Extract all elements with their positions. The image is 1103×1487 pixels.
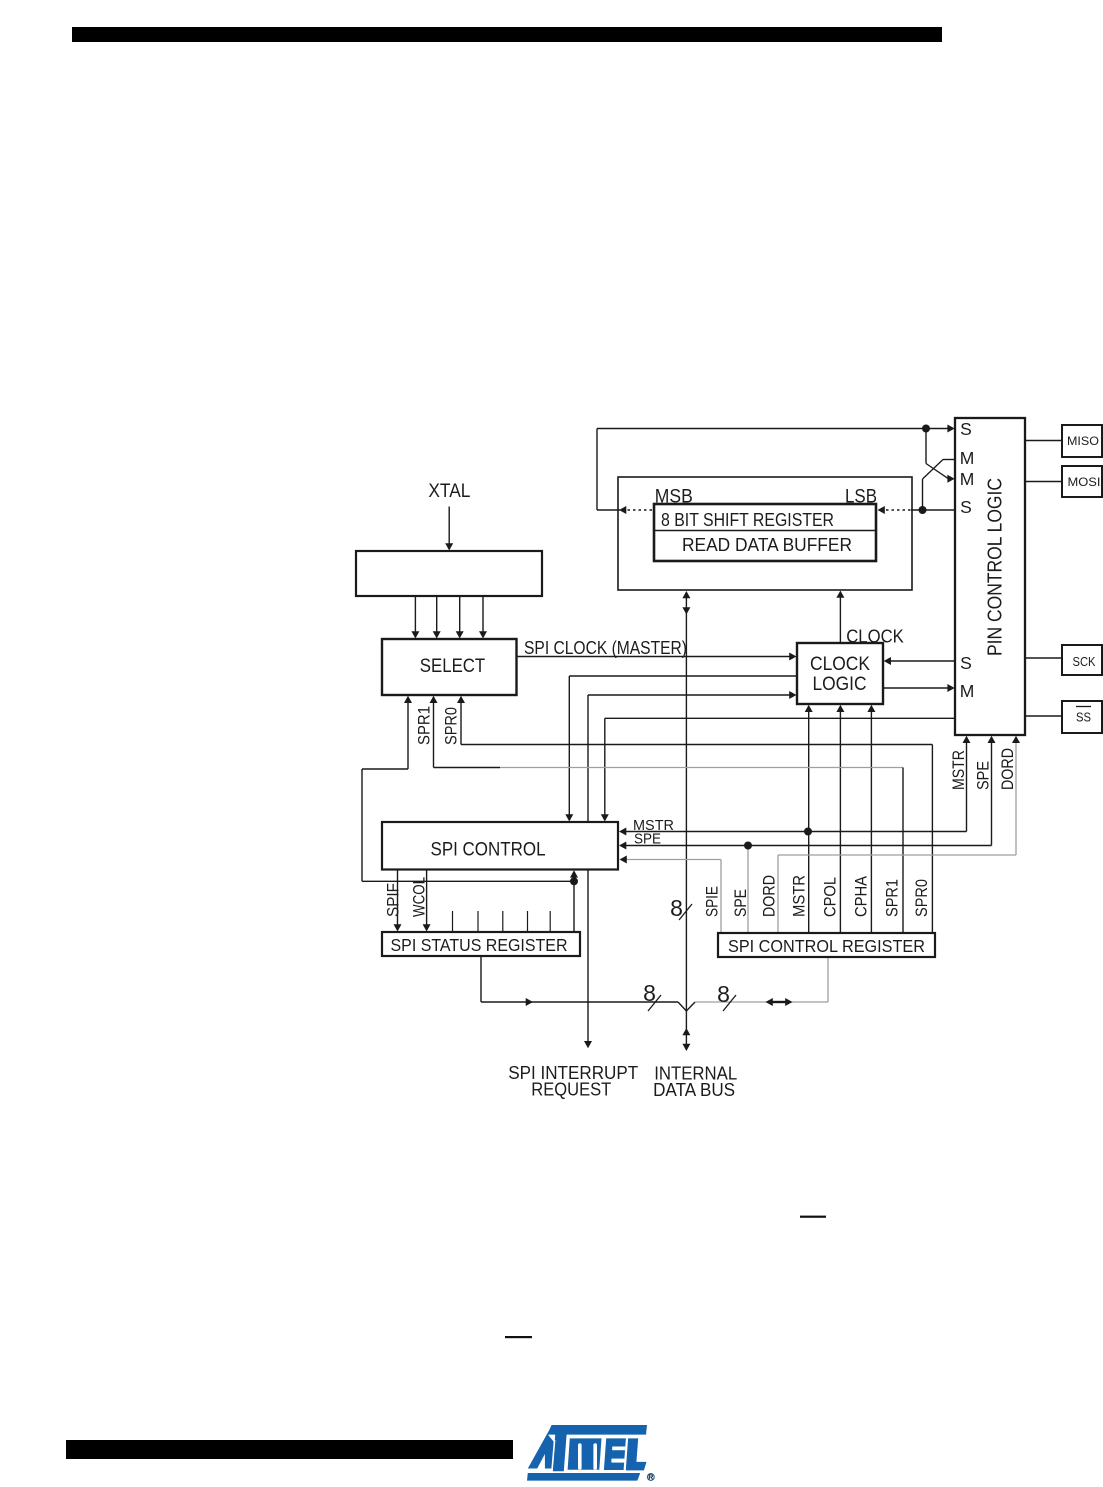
wire pin control to MOSI — [1025, 481, 1062, 483]
wire MSB dashed arrow — [597, 509, 620, 511]
divider box — [356, 551, 542, 596]
wire SPIF to status register — [397, 870, 399, 927]
slash bus right — [723, 995, 736, 1011]
svg-text:M: M — [960, 681, 975, 701]
svg-text:MOSI: MOSI — [1068, 475, 1101, 489]
Atmel logo — [548, 1425, 648, 1435]
wire crossover S to M upper — [925, 429, 927, 464]
svg-text:M: M — [960, 469, 975, 489]
MOSI box — [1062, 466, 1102, 497]
wire divider to select 3 — [459, 596, 461, 633]
svg-text:DORD: DORD — [761, 875, 779, 917]
wire clock logic to M pin — [883, 687, 949, 689]
svg-text:PIN CONTROL LOGIC: PIN CONTROL LOGIC — [983, 478, 1006, 656]
svg-text:R: R — [648, 1475, 653, 1482]
SPI STATUS REGISTER box — [382, 932, 580, 956]
wire status register to data bus — [480, 956, 482, 1002]
svg-text:S: S — [960, 653, 972, 673]
svg-text:CPOL: CPOL — [822, 877, 840, 917]
svg-text:SPI CONTROL: SPI CONTROL — [431, 839, 546, 861]
svg-text:SELECT: SELECT — [420, 656, 486, 677]
wire clock logic input 3 from spi control — [588, 694, 791, 696]
svg-text:MSB: MSB — [655, 487, 693, 508]
svg-text:DATA BUS: DATA BUS — [653, 1079, 735, 1100]
register divider line — [654, 530, 876, 532]
wire divider to select 4 — [482, 596, 484, 633]
svg-text:DORD: DORD — [999, 748, 1017, 790]
wire pin control to SCK — [1025, 657, 1062, 659]
svg-text:READ DATA BUFFER: READ DATA BUFFER — [682, 534, 852, 555]
wire internal data bus vertical from shift register — [682, 591, 690, 598]
wire SPE to spi control and pin control — [619, 842, 626, 850]
wire CLOCK clock logic to shift register — [839, 597, 841, 644]
wire S pin to clock logic — [890, 660, 955, 662]
junction lower S — [919, 506, 927, 514]
SS overline fragment 2 — [505, 1336, 532, 1338]
svg-text:MSTR: MSTR — [950, 750, 968, 790]
wire SPI CLOCK (MASTER) select to clock logic — [517, 656, 791, 658]
wire CPOL to clock logic bottom — [839, 711, 841, 933]
wire SPI interrupt request — [587, 870, 589, 1043]
wire SPE bit vertical — [747, 846, 749, 934]
junction top S — [922, 425, 930, 433]
svg-text:SPR0: SPR0 — [443, 707, 461, 745]
CLOCK LOGIC box — [797, 643, 883, 704]
wire pin control to SS — [1025, 715, 1062, 717]
svg-text:SPE: SPE — [975, 761, 993, 790]
wire crossover lower to M — [922, 479, 924, 510]
svg-text:SPR0: SPR0 — [913, 879, 931, 917]
svg-text:CLOCK: CLOCK — [810, 654, 870, 675]
svg-text:SPIF: SPIF — [385, 883, 403, 917]
SPI CONTROL box — [382, 822, 618, 870]
data bus notch — [678, 1002, 695, 1011]
junction MSTR bit — [804, 828, 812, 836]
wire LSB dashed arrow — [878, 506, 885, 514]
wire XTAL to divider — [448, 507, 450, 545]
svg-text:8 BIT SHIFT REGISTER: 8 BIT SHIFT REGISTER — [661, 509, 834, 530]
wire MSTR to spi control and pin control — [619, 828, 626, 836]
svg-text:8: 8 — [643, 980, 656, 1006]
svg-text:SCK: SCK — [1073, 655, 1097, 669]
PIN CONTROL LOGIC box — [955, 418, 1025, 735]
SELECT box — [382, 639, 517, 695]
wire divider to select 1 — [414, 596, 416, 633]
svg-text:MSTR: MSTR — [791, 875, 809, 917]
status register bit stubs — [452, 911, 454, 932]
wire SPI2X status bit to select — [404, 696, 412, 703]
svg-text:SPI CONTROL REGISTER: SPI CONTROL REGISTER — [728, 936, 925, 956]
wire pin control logic to spi control — [605, 717, 955, 719]
shift register outer box — [618, 477, 912, 590]
wire SPR1 to select — [430, 696, 438, 703]
svg-text:S: S — [960, 497, 972, 517]
wire SPR0 to select — [457, 696, 465, 703]
junction SPE — [744, 842, 752, 850]
wire divider to select 2 — [436, 596, 438, 633]
svg-text:WCOL: WCOL — [411, 877, 429, 917]
svg-text:CPHA: CPHA — [853, 876, 871, 917]
wire DORD to pin control — [777, 855, 779, 933]
svg-text:S: S — [960, 419, 972, 439]
SPI CONTROL REGISTER box — [718, 933, 935, 957]
svg-text:SPR1: SPR1 — [416, 706, 434, 745]
SCK box — [1062, 645, 1102, 675]
wire internal data bus bottom arrows — [685, 1011, 687, 1044]
svg-text:SPE: SPE — [732, 889, 750, 917]
wire MISO loop left vertical — [596, 429, 598, 511]
svg-text:REQUEST: REQUEST — [531, 1079, 611, 1100]
svg-text:LSB: LSB — [845, 487, 877, 508]
8 bit shift register / read data buffer box — [654, 504, 876, 561]
wire MSTR to clock logic bottom — [808, 711, 810, 933]
svg-text:M: M — [960, 448, 975, 468]
svg-text:SPI STATUS REGISTER: SPI STATUS REGISTER — [391, 935, 568, 955]
SS box — [1062, 701, 1102, 733]
svg-text:LOGIC: LOGIC — [813, 674, 867, 695]
wire WCOL to status register — [426, 870, 428, 927]
SS overline fragment 1 — [800, 1216, 826, 1218]
wire SPIE to spi control — [720, 860, 722, 934]
junction SPI2X — [570, 877, 578, 885]
svg-text:8: 8 — [717, 981, 730, 1007]
svg-text:SPI CLOCK (MASTER): SPI CLOCK (MASTER) — [524, 637, 687, 658]
wire MISO loop top — [597, 428, 949, 430]
svg-text:SPIE: SPIE — [704, 886, 722, 917]
svg-text:MISO: MISO — [1067, 434, 1099, 448]
wire clock logic input 2 from spi control — [569, 675, 797, 677]
svg-text:SS: SS — [1076, 711, 1091, 725]
header rule bar — [72, 27, 942, 42]
svg-text:CLOCK: CLOCK — [846, 627, 904, 647]
slash bus top — [679, 904, 692, 920]
footer rule bar — [66, 1440, 513, 1459]
wire pin control to MISO — [1025, 440, 1062, 442]
wire control register to data bus — [827, 957, 829, 1002]
MISO box — [1062, 425, 1102, 457]
svg-text:SPE: SPE — [634, 832, 661, 848]
slash bus left — [648, 995, 661, 1011]
svg-text:SPR1: SPR1 — [884, 879, 902, 917]
wire CPHA to clock logic bottom — [870, 711, 872, 933]
svg-text:XTAL: XTAL — [428, 481, 470, 502]
